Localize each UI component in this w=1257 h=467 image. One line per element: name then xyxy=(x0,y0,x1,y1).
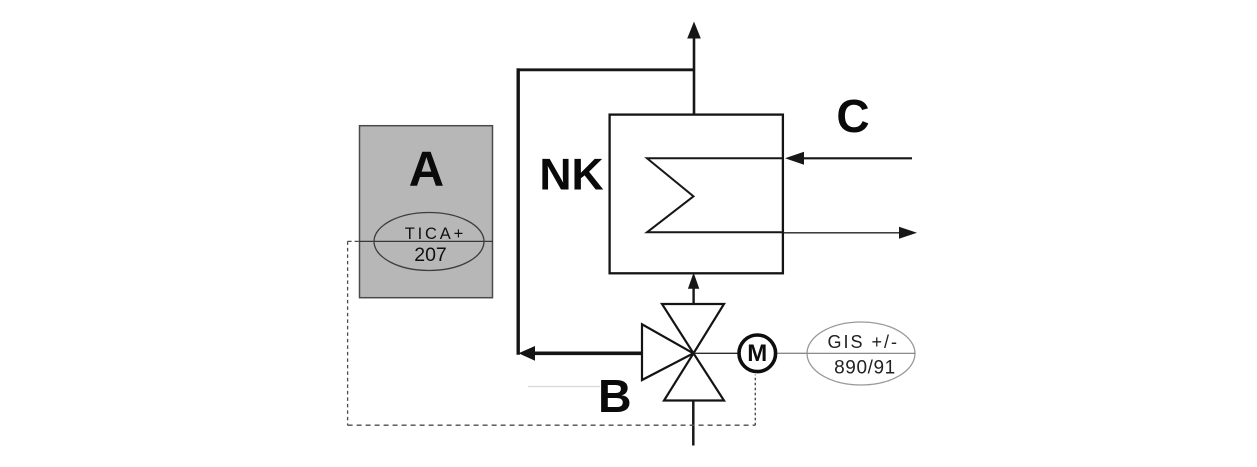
svg-text:207: 207 xyxy=(414,244,447,266)
wire outlet right xyxy=(784,232,901,234)
wire valve to motor xyxy=(694,352,739,354)
instrument ellipse TICA+ 207 xyxy=(374,213,484,271)
wire inlet C horizontal xyxy=(803,157,912,159)
svg-text:C: C xyxy=(836,90,869,142)
wire thick arrow valve to bypass xyxy=(533,351,642,355)
wire valve stem to exchanger xyxy=(692,287,694,304)
dashed signal to motor xyxy=(754,375,756,426)
arrowhead inlet C xyxy=(785,152,804,165)
valve bottom triangle xyxy=(664,353,724,400)
arrowhead left xyxy=(519,346,536,361)
dashed signal stub at TICA xyxy=(348,240,361,242)
wire left vertical bypass xyxy=(517,68,520,354)
svg-text:NK: NK xyxy=(539,151,603,200)
svg-text:GIS +/-: GIS +/- xyxy=(827,332,899,352)
svg-text:890/91: 890/91 xyxy=(834,358,896,379)
svg-text:M: M xyxy=(747,340,767,367)
arrowhead vent top xyxy=(687,22,701,39)
motor actuator M circle xyxy=(739,335,776,372)
instrument ellipse GIS xyxy=(807,322,915,385)
svg-text:B: B xyxy=(598,370,632,422)
svg-text:TICA+: TICA+ xyxy=(405,225,466,243)
arrowhead outlet right xyxy=(899,227,917,239)
valve left triangle xyxy=(642,324,693,380)
signal line through TICA+ ellipse xyxy=(359,240,493,242)
wire vent vertical at top xyxy=(693,37,696,115)
controller box A xyxy=(360,126,493,298)
svg-text:A: A xyxy=(409,143,444,197)
line through GIS ellipse xyxy=(807,352,915,354)
coil inside heat exchanger xyxy=(647,158,783,232)
wire top horizontal bypass xyxy=(517,68,694,71)
wire motor to GIS ellipse xyxy=(778,352,809,354)
arrowhead into exchanger xyxy=(688,273,699,289)
heat exchanger NK body xyxy=(610,115,783,274)
wire valve stem bottom xyxy=(692,401,695,446)
dashed signal left vertical xyxy=(347,241,349,425)
faint artifact line xyxy=(528,386,600,388)
valve top triangle xyxy=(662,304,724,353)
dashed signal bottom horizontal xyxy=(348,424,756,426)
